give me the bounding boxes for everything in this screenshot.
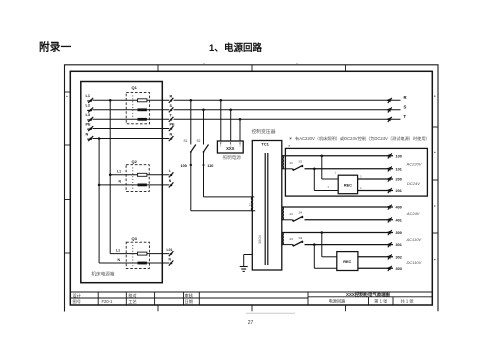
svg-text:300: 300 — [396, 231, 402, 235]
svg-text:303: 303 — [396, 267, 402, 271]
svg-text:Q2: Q2 — [132, 159, 138, 164]
svg-text:N: N — [170, 133, 173, 137]
svg-text:380V: 380V — [257, 234, 262, 244]
svg-text:N: N — [86, 132, 89, 136]
svg-text:1、: 1、 — [209, 43, 224, 54]
svg-text:24: 24 — [290, 212, 294, 216]
svg-text:400: 400 — [396, 206, 402, 210]
svg-text:F20-1: F20-1 — [102, 299, 114, 304]
svg-text:100: 100 — [396, 154, 402, 158]
svg-text:共 1 张: 共 1 张 — [400, 297, 414, 304]
svg-text:110: 110 — [207, 164, 213, 168]
svg-text:校对: 校对 — [128, 292, 136, 299]
svg-text:L: L — [169, 169, 171, 173]
svg-text:设计: 设计 — [73, 292, 81, 299]
svg-text:R: R — [170, 94, 173, 98]
svg-text:301: 301 — [396, 243, 402, 247]
svg-text:L2: L2 — [86, 104, 90, 108]
svg-text:L1: L1 — [116, 248, 120, 252]
svg-text:T: T — [404, 114, 407, 119]
svg-text:DC24V: DC24V — [407, 181, 420, 186]
svg-text:L1: L1 — [86, 94, 90, 98]
svg-text:有AC220V（机床照明）或DC24V控制（为DC24V（测: 有AC220V（机床照明）或DC24V控制（为DC24V（测试电源）时使用） — [295, 135, 430, 142]
svg-text:PE: PE — [170, 123, 176, 127]
svg-text:S: S — [404, 105, 407, 110]
svg-text:101: 101 — [396, 167, 402, 171]
svg-text:L1: L1 — [117, 170, 121, 174]
svg-text:201: 201 — [396, 189, 402, 193]
svg-text:S2: S2 — [197, 139, 201, 143]
svg-text:AC110V: AC110V — [406, 237, 422, 242]
svg-text:TC1: TC1 — [261, 142, 269, 147]
svg-text:＊: ＊ — [289, 136, 293, 141]
svg-text:302: 302 — [396, 255, 402, 259]
svg-text:照明电源: 照明电源 — [223, 154, 242, 161]
svg-text:23: 23 — [290, 237, 294, 241]
svg-text:L3: L3 — [86, 113, 90, 117]
svg-text:DC110V: DC110V — [407, 260, 422, 265]
svg-text:S4: S4 — [299, 211, 303, 215]
svg-text:审核: 审核 — [185, 292, 194, 299]
svg-text:附录一: 附录一 — [39, 41, 72, 54]
svg-text:工艺: 工艺 — [128, 299, 136, 304]
svg-text:电源回路: 电源回路 — [224, 42, 263, 54]
svg-text:REC: REC — [343, 260, 351, 264]
svg-text:Q3: Q3 — [132, 236, 138, 241]
svg-text:S3: S3 — [299, 236, 303, 240]
svg-text:S1: S1 — [184, 139, 188, 143]
svg-text:第 1 张: 第 1 张 — [374, 297, 388, 304]
svg-text:机床电源箱: 机床电源箱 — [92, 270, 115, 277]
svg-text:AC24V: AC24V — [406, 211, 420, 216]
svg-text:L01: L01 — [167, 248, 173, 252]
svg-text:27: 27 — [248, 320, 254, 326]
svg-text:S2: S2 — [299, 160, 303, 164]
svg-text:R: R — [404, 95, 407, 100]
svg-text:PE: PE — [86, 122, 92, 126]
svg-text:控制变压器: 控制变压器 — [252, 128, 276, 135]
svg-text:100: 100 — [181, 164, 187, 168]
svg-text:401: 401 — [396, 218, 402, 222]
svg-text:200: 200 — [396, 178, 402, 182]
svg-text:AC220V: AC220V — [406, 161, 422, 166]
svg-text:REC: REC — [344, 184, 352, 188]
svg-text:XXX控制柜电气原理图: XXX控制柜电气原理图 — [346, 291, 391, 298]
svg-text:21: 21 — [290, 161, 294, 165]
svg-text:电源回路: 电源回路 — [329, 297, 347, 304]
svg-text:Q1: Q1 — [132, 85, 138, 90]
